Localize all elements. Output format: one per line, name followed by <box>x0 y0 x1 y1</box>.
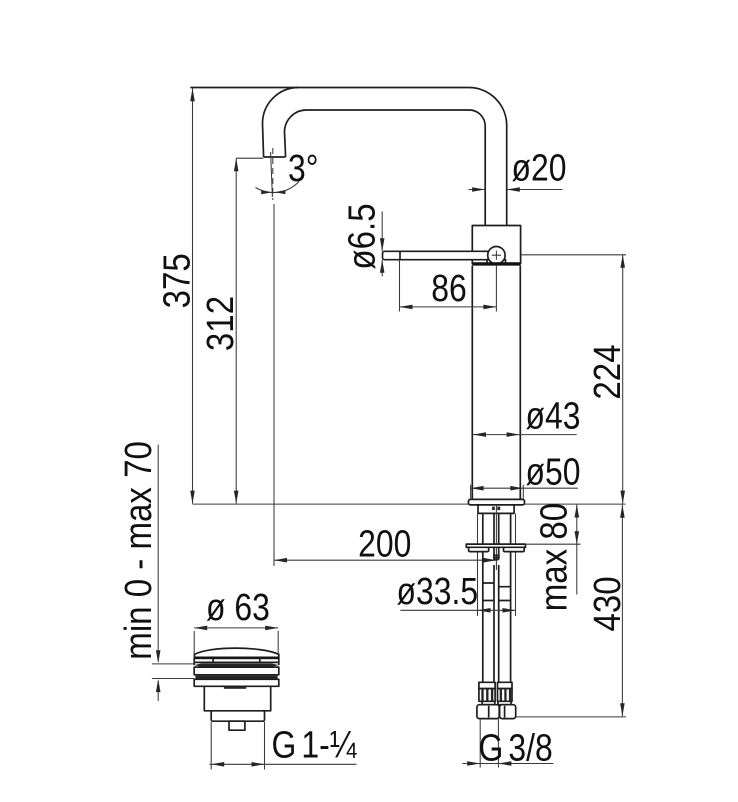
svg-text:86: 86 <box>431 267 467 309</box>
svg-text:430: 430 <box>586 576 629 631</box>
hose crimp hatch right <box>498 689 513 702</box>
threaded rod <box>494 514 499 560</box>
svg-text:375: 375 <box>155 253 198 308</box>
housing separation thick line <box>472 262 520 265</box>
hose crimp hatch left <box>479 689 495 702</box>
drain cap bottom thick line <box>194 656 279 659</box>
dimension 86 extension lines <box>400 260 497 311</box>
dimension G3/8 extension lines <box>480 719 498 768</box>
hose end band right <box>498 701 511 704</box>
drain: dimension o63 extension lines <box>194 631 278 655</box>
hose end band left <box>482 701 495 704</box>
svg-text:G3/8: G3/8 <box>479 727 553 769</box>
dimension 224 line <box>622 255 624 504</box>
countertop line <box>193 503 626 505</box>
svg-text:ø6.5: ø6.5 <box>340 203 383 269</box>
base plate <box>468 499 524 505</box>
svg-text:ø 63: ø 63 <box>206 586 270 628</box>
hose collar right <box>498 682 513 688</box>
dimension 375 line <box>192 88 194 503</box>
dimension 312 line <box>235 158 237 503</box>
drain threaded cylinder <box>204 686 270 711</box>
drain gasket lens <box>194 664 279 667</box>
outlet tilted axis (3 deg) <box>271 152 273 197</box>
horseshoe flange plate <box>466 544 525 547</box>
lever bar <box>383 251 497 259</box>
o33.5 extension lines <box>478 514 516 616</box>
drain cap dome <box>194 648 278 658</box>
drain upper body band <box>194 667 279 675</box>
dimension 200 line <box>274 559 496 561</box>
dimension 312 extension line <box>236 157 263 159</box>
dimension o50 extension lines <box>471 485 524 499</box>
spout outlet bend inner <box>285 110 307 157</box>
svg-text:200: 200 <box>358 523 411 565</box>
drain tail step <box>211 711 264 721</box>
dimension o63 line <box>194 627 278 629</box>
dimension 224 extension line <box>522 254 627 256</box>
svg-text:ø50: ø50 <box>526 451 581 493</box>
dimension max80 extension line <box>526 543 581 545</box>
svg-text:ø43: ø43 <box>526 395 581 437</box>
tube joint ticks <box>483 583 511 601</box>
svg-text:ø20: ø20 <box>512 147 567 189</box>
shank bolts <box>492 507 495 511</box>
pivot cross <box>492 251 501 260</box>
spout outlet bend outer <box>263 88 299 158</box>
dimension max80 line <box>576 505 578 595</box>
dimension G3/8 line <box>462 763 553 765</box>
min0max70 dimension line <box>157 445 159 701</box>
svg-text:224: 224 <box>586 344 629 399</box>
svg-text:min 0 - max 70: min 0 - max 70 <box>117 441 160 660</box>
dimension 200 extension (outlet axis) <box>273 204 275 566</box>
drain dark ring <box>195 676 277 679</box>
drain rim band <box>194 658 279 665</box>
drain lower body band <box>194 679 279 686</box>
dimension 86 line <box>400 306 497 308</box>
dimension G1-1/4 extension lines <box>211 722 264 770</box>
dimension o50 line <box>471 487 578 489</box>
dimension 430 bottom extension <box>516 716 626 718</box>
hex nut right <box>500 705 516 719</box>
dimension o20 line <box>469 189 563 191</box>
min0max70 extension lines <box>152 664 194 679</box>
angle arc 3 deg <box>256 182 300 193</box>
hex nut left <box>477 705 499 719</box>
supply tube left <box>483 514 494 683</box>
supply tube right <box>499 514 511 683</box>
mounting shank <box>478 505 514 514</box>
dimension G1-1/4 line <box>210 763 357 765</box>
svg-text:312: 312 <box>199 296 242 351</box>
spout outer outline <box>190 88 506 227</box>
angle arc arrowheads <box>261 190 272 194</box>
dimension o43 line <box>473 434 577 436</box>
flange foot left <box>469 547 489 551</box>
spout inner outline <box>307 110 486 226</box>
spout outlet mouth <box>264 156 286 158</box>
lever mount bracket <box>487 260 506 264</box>
faucet centerline below base <box>495 506 497 571</box>
dimension o6.5 line <box>381 212 383 277</box>
hose collar left <box>479 682 495 688</box>
svg-text:3°: 3° <box>288 147 319 189</box>
drain tail tab <box>229 721 245 730</box>
svg-text:max 80: max 80 <box>532 503 575 611</box>
dimension 430 line <box>621 505 623 717</box>
svg-text:ø33.5: ø33.5 <box>397 571 479 613</box>
lever end cap line <box>399 251 401 259</box>
outlet axis dashed line <box>272 148 274 200</box>
flange foot right <box>504 547 525 551</box>
rod nut ticks <box>493 555 500 557</box>
drain thread notch <box>224 687 246 689</box>
pivot circle <box>488 247 505 264</box>
dimension o33.5 line <box>400 609 515 611</box>
svg-text:G1-¼: G1-¼ <box>272 724 358 766</box>
faucet body <box>472 266 520 500</box>
cartridge housing <box>472 226 520 264</box>
